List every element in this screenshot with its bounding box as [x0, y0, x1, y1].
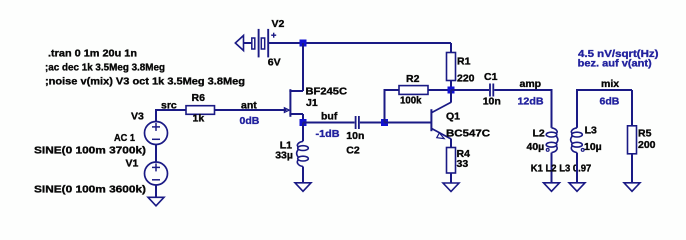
svg-text:ant: ant	[241, 100, 257, 112]
transistor Q1 symbol	[431, 102, 451, 139]
wire L3 to ground	[576, 153, 578, 183]
ground below R5	[624, 183, 640, 192]
capacitor C2 plates	[356, 116, 359, 129]
battery plus sign	[271, 33, 276, 38]
ground (battery negative, rotated left)	[235, 36, 243, 51]
svg-text:0dB: 0dB	[240, 115, 260, 127]
svg-text:mix: mix	[601, 78, 619, 90]
ground below L2	[544, 183, 560, 192]
wire R5 top lead	[631, 90, 633, 126]
ground below L1	[295, 183, 311, 192]
svg-text:-1dB: -1dB	[316, 128, 340, 140]
resistor R1 body	[447, 53, 456, 81]
svg-text:J1: J1	[306, 97, 318, 109]
wire R1 bottom to node	[450, 81, 452, 91]
wire Q1 emitter down to R4	[450, 139, 452, 148]
junction R2/base node	[381, 119, 388, 126]
wire R4 to ground	[450, 173, 452, 183]
wire J1 source down	[302, 114, 304, 123]
svg-text:L2: L2	[533, 127, 545, 139]
wire L3 top lead	[576, 89, 578, 128]
svg-text:R6: R6	[192, 92, 206, 104]
wire V1 to ground	[155, 185, 157, 197]
wire ant: R6 to J1 gate	[215, 109, 287, 111]
ground below R4	[443, 183, 459, 192]
wire Q1 collector up	[450, 90, 452, 102]
svg-text:V2: V2	[272, 18, 285, 30]
wire base node to Q1 base	[385, 122, 431, 124]
svg-text:V3: V3	[131, 111, 144, 123]
wire battery gnd to plate	[244, 42, 252, 44]
svg-text:10n: 10n	[483, 95, 501, 107]
wire node to C1	[451, 89, 489, 91]
svg-text:Q1: Q1	[446, 111, 460, 123]
wire buf node down to L1	[302, 123, 304, 142]
resistor R5 body	[628, 126, 637, 154]
svg-text:6V: 6V	[268, 57, 281, 69]
wire top rail V2+ to R1	[268, 42, 451, 44]
svg-text:BF245C: BF245C	[306, 86, 348, 98]
wire V3 top to src corner	[155, 109, 157, 122]
wire R5 to ground	[631, 154, 633, 183]
wire V3 to V1	[155, 145, 157, 163]
svg-text:40µ: 40µ	[527, 141, 545, 153]
wire L2 to ground	[551, 153, 553, 183]
wire J1 drain up to rail	[302, 43, 304, 91]
capacitor C1 plates	[490, 84, 493, 97]
svg-text:10n: 10n	[346, 130, 364, 142]
svg-text:100k: 100k	[400, 94, 422, 106]
svg-text:;noise v(mix) V3 oct 1k 3.5Meg: ;noise v(mix) V3 oct 1k 3.5Meg 3.8Meg	[45, 76, 245, 88]
junction rail/J1 drain	[300, 40, 307, 47]
svg-text:bez. auf v(ant): bez. auf v(ant)	[578, 58, 652, 70]
jfet J1 symbol	[284, 89, 303, 117]
wire L2 top lead	[551, 89, 553, 128]
ground below L3	[569, 183, 585, 192]
svg-text:amp: amp	[520, 78, 542, 90]
wire base node up to R2	[384, 89, 386, 123]
svg-text:10µ: 10µ	[584, 141, 602, 153]
svg-text:BC547C: BC547C	[446, 127, 490, 139]
svg-text:33µ: 33µ	[275, 149, 293, 161]
battery V2 plates	[252, 29, 268, 58]
wire mix rail L3 to R5	[577, 89, 632, 91]
inductor L2 coil	[546, 128, 558, 153]
resistor R6 body	[186, 106, 215, 115]
wire rail down to R1	[450, 43, 452, 53]
svg-text:C2: C2	[346, 145, 360, 157]
svg-text:1k: 1k	[193, 113, 205, 125]
svg-text:200: 200	[638, 139, 656, 151]
wire buf: J1 source to C2	[303, 122, 355, 124]
inductor L3 coil	[571, 128, 583, 153]
svg-text:C1: C1	[484, 71, 498, 83]
voltage source V3	[145, 122, 168, 145]
svg-text:.tran 0 1m 20u 1n: .tran 0 1m 20u 1n	[48, 48, 137, 60]
svg-text:SINE(0 100m 3700k): SINE(0 100m 3700k)	[34, 145, 146, 157]
wire amp: C1 to L2	[494, 89, 551, 91]
svg-text:R1: R1	[457, 56, 471, 68]
svg-text:R2: R2	[406, 73, 420, 85]
phase dot L3	[581, 149, 584, 152]
svg-text:6dB: 6dB	[600, 95, 620, 107]
junction buf node	[300, 119, 307, 126]
svg-text:src: src	[161, 100, 177, 112]
svg-text:K1 L2 L3 0.97: K1 L2 L3 0.97	[531, 163, 592, 175]
svg-text:12dB: 12dB	[518, 95, 544, 107]
svg-text:V1: V1	[126, 157, 139, 169]
svg-text:buf: buf	[321, 111, 338, 123]
svg-text:;ac dec 1k 3.5Meg 3.8Meg: ;ac dec 1k 3.5Meg 3.8Meg	[45, 62, 165, 74]
svg-text:33: 33	[457, 158, 469, 170]
svg-text:R5: R5	[638, 128, 652, 140]
svg-text:L3: L3	[585, 125, 597, 137]
svg-text:220: 220	[457, 73, 475, 85]
svg-text:SINE(0 100m 3600k): SINE(0 100m 3600k)	[34, 183, 146, 195]
voltage source V1	[145, 162, 168, 185]
wire L1 to ground	[302, 167, 304, 183]
junction R1/R2/C1/collector	[448, 87, 455, 94]
resistor R4 body	[447, 148, 456, 174]
inductor L1 coil	[297, 141, 309, 166]
resistor R2 body	[399, 86, 428, 95]
phase dot L2	[546, 149, 549, 152]
svg-text:AC 1: AC 1	[114, 132, 135, 144]
ground below V1	[148, 197, 164, 206]
wire R2 right to collector node	[428, 89, 451, 91]
wire C2 to base node	[360, 122, 385, 124]
wire corner to R2 left	[384, 89, 400, 91]
wire src corner to R6	[155, 109, 186, 111]
